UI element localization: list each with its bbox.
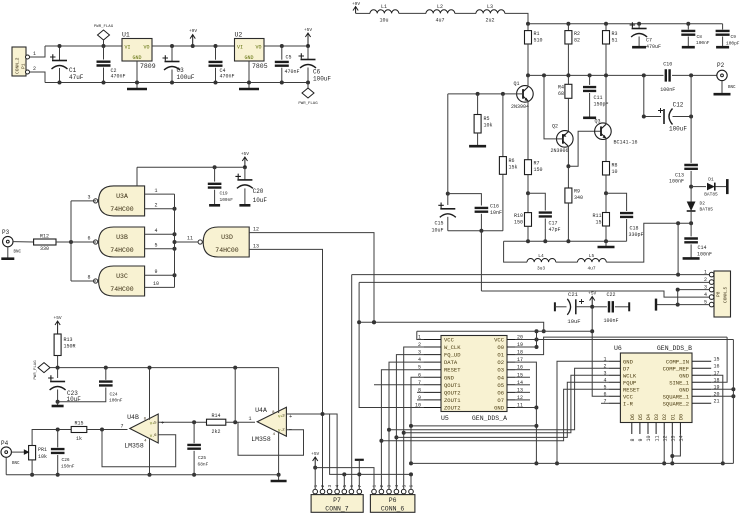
svg-text:D2: D2 [662,414,668,420]
svg-text:GND: GND [132,55,141,61]
+5V power symbol C21 [588,291,596,309]
wire U4B feedback [102,430,176,467]
connector P8 CONN_5 [704,270,731,317]
svg-text:D3: D3 [654,414,660,420]
wire C15 to Q1 base [447,94,449,194]
power flag top [94,25,114,48]
resistor R5 10k [469,94,492,146]
connector P3 BNC [1,229,21,259]
svg-text:10uF: 10uF [253,197,268,204]
svg-text:P2: P2 [717,62,725,69]
svg-text:L1: L1 [381,4,387,10]
svg-text:8: 8 [630,438,636,441]
wire U5 pin18 O1 [515,337,727,355]
capacitor C16 10nF [448,194,502,231]
svg-text:R2: R2 [574,31,580,37]
node R8-R11 [604,191,627,211]
svg-text:R5: R5 [484,116,490,122]
svg-text:100nF: 100nF [696,40,710,46]
wire U3C output [71,275,96,282]
wire P2 node down [690,75,692,162]
diode D2 BAT85 [687,187,714,224]
svg-text:U1: U1 [122,32,130,39]
wire bus to U3D [175,236,200,243]
wire P8 pin5 [657,303,710,307]
svg-text:W_CLK: W_CLK [444,344,461,351]
resistor R3 51 [603,22,618,76]
wire R12 to node [56,240,73,244]
diode D1 BAT85 [689,177,727,198]
svg-text:150R: 150R [64,344,76,350]
svg-text:VCC: VCC [623,393,634,400]
svg-text:VO: VO [255,45,261,51]
svg-text:I-R: I-R [623,400,634,407]
wire C15 C16 bottom row [448,229,503,233]
svg-text:470uF: 470uF [646,44,661,50]
wire R15 to U4B [87,424,128,432]
capacitor C8 100nF [681,22,710,47]
ground U2 [239,61,259,89]
svg-text:D4: D4 [646,414,652,420]
wire opamp ground rail [6,474,278,476]
svg-text:Q2: Q2 [552,124,558,130]
wire P4 to PR1 [11,451,22,453]
svg-text:5: 5 [154,243,157,249]
svg-text:BNC: BNC [12,462,20,466]
wire U5 pin1 VCC [417,331,424,339]
svg-text:R14: R14 [211,413,220,419]
svg-text:+5V: +5V [54,315,62,321]
svg-text:C15: C15 [434,221,443,227]
svg-text:100uF: 100uF [313,76,331,83]
svg-text:+5V: +5V [311,451,319,457]
resistor R2 82 [565,22,580,76]
svg-text:COMP_REF: COMP_REF [663,365,689,372]
svg-text:74HC00: 74HC00 [110,206,134,213]
svg-text:GEN_DDS_A: GEN_DDS_A [472,415,507,422]
svg-text:100nF: 100nF [697,252,712,258]
gate U3D 74HC00 [198,227,249,257]
wire U5 pin14 stub [515,384,530,386]
svg-text:R1: R1 [534,31,540,37]
wire U3D pin12 [249,227,374,323]
resistor R10 150 [514,193,532,241]
svg-text:74HC00: 74HC00 [215,247,239,254]
svg-text:CONN_6: CONN_6 [381,506,405,513]
svg-text:U5: U5 [441,415,449,422]
wire P1 pin2 [30,72,46,83]
wire row E sine [352,273,712,277]
resistor R11 15 [592,193,609,241]
svg-text:ZOUT1: ZOUT1 [444,397,461,404]
capacitor C18 330pF [620,213,644,241]
wire U3A output [71,195,96,201]
svg-text:1: 1 [248,416,251,422]
svg-text:3: 3 [387,485,393,488]
svg-text:QOUT2: QOUT2 [444,389,461,396]
regulator U2 7805 [235,32,268,71]
capacitor C21 10uF [555,291,592,325]
wire P3 to R12 [13,241,34,243]
capacitor C11 150pF [583,73,609,117]
svg-text:470nF: 470nF [111,74,126,80]
capacitor C25 68nF [187,422,208,477]
wire Q1 base [448,92,523,96]
transistor Q3 BC141-16 [594,119,637,146]
wire Q3 emitter [605,138,607,161]
wire row F square [359,281,711,283]
svg-text:SQUARE_1: SQUARE_1 [663,393,690,400]
capacitor C20 10uF [235,167,267,205]
wire output row [526,73,664,77]
svg-text:PWR_FLAG: PWR_FLAG [94,25,114,29]
wire vcc branch down [234,368,236,423]
wire data row4 [381,389,608,441]
wire P8 pin3 [676,288,710,292]
capacitor C2 470nF [97,46,126,85]
+5V power symbol [304,27,312,46]
svg-text:100uF: 100uF [177,74,195,81]
gate U3B 74HC00 [94,227,145,257]
svg-text:ZOUT2: ZOUT2 [444,404,461,411]
wire U4A feedback [238,422,304,455]
svg-text:GND: GND [679,386,690,393]
svg-text:O4: O4 [497,374,504,381]
svg-text:16: 16 [714,363,720,369]
svg-text:3: 3 [327,485,333,488]
capacitor C15 10uF [431,192,455,234]
+5V power symbol P7 [311,451,319,470]
capacitor C5 470nF [275,44,300,85]
svg-text:10: 10 [153,281,159,287]
svg-text:21: 21 [714,398,720,404]
svg-text:C14: C14 [698,245,707,251]
svg-text:P4: P4 [1,440,9,447]
capacitor C23 10uF [48,368,81,406]
IC U5 GEN_DDS_A [415,335,523,423]
svg-text:10: 10 [646,435,652,441]
svg-text:D1: D1 [670,414,676,420]
svg-text:GND: GND [494,404,505,411]
wire U6 pin6 VCC [590,307,608,397]
svg-text:68: 68 [558,91,564,97]
svg-text:RESET: RESET [623,386,640,393]
svg-text:+: + [161,420,164,427]
wire U5 pin12 stub [515,399,530,401]
wire U5 pin8 stub [417,391,423,393]
svg-text:C12: C12 [673,102,684,109]
svg-text:BNC: BNC [728,86,736,90]
svg-text:6: 6 [409,485,415,488]
svg-text:PR1: PR1 [38,447,47,453]
capacitor C14 100nF [683,223,712,258]
svg-text:C11: C11 [594,95,603,101]
svg-text:GND: GND [679,372,690,379]
capacitor C3 100uF [163,44,195,85]
wire U5 vcc riser [535,329,539,349]
capacitor C12 100uF [642,73,693,132]
wire U5 pin19 O0 [515,346,537,348]
svg-text:BAT85: BAT85 [700,207,714,213]
svg-text:+5V: +5V [241,151,249,157]
wire Q1 collector [527,75,529,87]
wire rail to L1 [356,12,370,14]
wire U5 pin3 FQ_UD [394,355,423,490]
svg-text:510: 510 [534,38,543,44]
capacitor C24 100nF [58,368,123,404]
svg-text:10: 10 [612,169,618,175]
svg-text:D1: D1 [708,177,714,183]
svg-text:L4: L4 [538,253,544,259]
wire U6 right loop down [732,340,734,464]
svg-text:U3B: U3B [116,234,128,241]
svg-text:4: 4 [154,228,157,234]
transistor Q2 2N3906 [551,124,574,155]
svg-text:D5: D5 [638,414,644,420]
node Q2-Q3 junction [566,131,600,168]
wire P6 pin6 stub [410,474,412,489]
wire emitter ground row [504,239,627,243]
wire row B 331 [417,330,592,332]
capacitor C17 47pF [539,213,561,242]
connector P2 BNC [689,62,736,94]
svg-text:100nF: 100nF [603,318,618,324]
svg-text:2u2: 2u2 [485,18,494,24]
svg-text:10k: 10k [38,454,47,460]
svg-text:1: 1 [154,188,157,194]
svg-text:1k: 1k [76,436,82,442]
wire U3A in2 [145,203,177,211]
svg-text:C22: C22 [606,292,615,298]
capacitor C7 470uF [630,22,661,50]
svg-text:4: 4 [394,485,400,488]
wire P8 gnd link [677,290,679,305]
svg-text:VI: VI [125,45,131,51]
svg-text:C26: C26 [62,457,70,463]
svg-text:LM358: LM358 [124,443,144,450]
wire U1 output [152,45,235,47]
svg-text:VCC: VCC [494,337,505,344]
svg-text:BAT85: BAT85 [704,192,718,198]
svg-text:1: 1 [372,485,378,488]
wire U5 pin13 stub [515,391,530,393]
wire Q3 collector [604,73,608,124]
connector P6 CONN_6 [370,485,415,513]
wire U5 pin9 stub [417,399,423,401]
svg-text:SINE_1: SINE_1 [669,379,690,386]
inductor L2 4u7 [426,4,455,24]
wire +5V row to P6 pin1 [315,468,374,490]
svg-text:CONN_5: CONN_5 [723,286,729,303]
svg-text:O2: O2 [497,359,504,366]
svg-text:1: 1 [33,51,36,57]
wire U5 pin11 GND [515,406,536,408]
power flag opamp [34,360,58,380]
svg-text:U4A: U4A [255,407,267,414]
svg-text:O1: O1 [497,352,504,359]
wire R14 to U4A [226,416,255,424]
svg-text:330pF: 330pF [629,232,644,238]
wire U3D pin13 [249,243,322,489]
svg-text:U3C: U3C [116,273,128,280]
svg-text:47pF: 47pF [549,227,561,233]
svg-text:150: 150 [534,167,543,173]
wire Q1 emitter [527,101,529,160]
svg-text:RESET: RESET [444,367,461,374]
svg-text:12: 12 [662,435,668,441]
svg-text:L3: L3 [487,4,493,10]
svg-text:GND: GND [623,358,634,365]
svg-text:11: 11 [654,435,660,441]
svg-text:P7: P7 [333,497,341,504]
svg-text:O3: O3 [497,367,504,374]
gate U3C 74HC00 [94,266,145,296]
wire U6 D0 down [672,434,680,456]
wire P7 pin1 [314,468,316,490]
wire data row1 [389,368,609,429]
power flag bottom [298,83,318,107]
svg-text:150: 150 [514,220,523,226]
svg-text:15: 15 [595,220,601,226]
svg-text:12: 12 [253,227,259,233]
wire gate output bus [173,194,177,287]
resistor R6 15k [499,94,517,231]
ground amp row [598,241,615,247]
svg-text:C24: C24 [110,392,118,398]
capacitor C22 100nF [592,292,629,324]
svg-text:SQUARE_2: SQUARE_2 [663,400,689,407]
capacitor C6 100uF [299,44,332,85]
svg-text:GEN_DDS_B: GEN_DDS_B [657,345,692,352]
node sine out [676,221,693,225]
svg-text:4u7: 4u7 [587,266,595,272]
wire data row3 [396,382,608,437]
svg-text:5: 5 [342,485,348,488]
wire U5 pin15 stub [515,376,530,378]
wire U3B in1 [145,228,177,236]
svg-text:FQUP: FQUP [623,379,636,386]
svg-text:470nF: 470nF [285,69,300,75]
svg-text:U6: U6 [614,345,622,352]
svg-text:U2: U2 [235,32,243,39]
capacitor C1 47uF [50,44,84,85]
svg-text:L2: L2 [437,4,443,10]
svg-text:340: 340 [574,195,583,201]
wire gates vcc rail [137,165,247,169]
svg-text:U3D: U3D [221,234,233,241]
capacitor C13 100nF [669,165,698,187]
svg-text:GND: GND [244,55,253,61]
svg-text:C1: C1 [69,67,77,74]
svg-text:+9V: +9V [189,28,197,34]
svg-text:15k: 15k [509,165,518,171]
svg-text:P3: P3 [2,229,10,236]
svg-text:C8: C8 [697,34,703,40]
svg-text:2: 2 [704,277,707,283]
svg-text:U3A: U3A [116,193,128,200]
wire U6 D1 down [670,434,674,465]
svg-text:GND: GND [444,374,455,381]
svg-text:C25: C25 [198,455,206,461]
svg-text:DATA: DATA [444,359,458,366]
svg-text:D6: D6 [630,414,636,420]
wire U6 D2 down [662,434,666,465]
svg-text:D2: D2 [700,201,706,207]
svg-text:VO: VO [143,45,149,51]
svg-text:10nF: 10nF [490,210,502,216]
svg-text:O7: O7 [497,397,504,404]
resistor R9 340 [565,166,583,241]
svg-text:FQ_UD: FQ_UD [444,352,461,359]
wire +9V rail right [528,23,723,25]
svg-text:P8: P8 [716,291,722,297]
wire ground row B [330,414,413,476]
svg-text:82: 82 [574,38,580,44]
svg-text:O0: O0 [497,344,504,351]
svg-text:R10: R10 [514,213,523,219]
wire U4B plus input [158,420,206,424]
svg-text:9: 9 [154,269,157,275]
wire sine to P8 [677,223,679,274]
svg-text:Q1: Q1 [514,81,520,87]
svg-text:+9V: +9V [352,1,360,7]
+9V power symbol right [352,1,360,13]
svg-text:10uF: 10uF [567,318,580,325]
svg-text:9: 9 [638,438,644,441]
svg-text:74HC00: 74HC00 [110,247,134,254]
capacitor C26 150nF [51,430,75,477]
svg-text:4: 4 [704,292,707,298]
svg-text:R3: R3 [612,31,618,37]
svg-text:Q3: Q3 [594,119,600,125]
svg-text:1: 1 [704,270,707,276]
wire U5 pin16 stub [515,369,530,371]
wire U3A vcc pin [136,167,138,186]
inductor L4 3u3 [504,241,578,271]
svg-text:R11: R11 [592,213,601,219]
transistor Q1 2N3904 [511,81,533,110]
wire L2-L3 [455,12,476,14]
svg-text:PWR_FLAG: PWR_FLAG [34,360,38,380]
svg-text:13: 13 [671,435,677,441]
resistor R13 150R [54,334,75,368]
svg-text:100nF: 100nF [669,179,684,185]
svg-text:11: 11 [187,236,193,242]
svg-text:7: 7 [357,485,363,488]
svg-text:7: 7 [120,424,123,430]
wire output row2 [672,74,717,76]
inductor L3 2u2 [476,4,505,24]
svg-text:WCLK: WCLK [623,372,637,379]
resistor R4 68 [558,73,572,132]
svg-text:150nF: 150nF [61,464,75,470]
+5V power symbol opamp [54,315,62,334]
svg-text:+5V: +5V [304,27,312,33]
wire U5 pin7 QOUT1 [372,320,423,385]
svg-text:QOUT1: QOUT1 [444,382,461,389]
wire U3A in1 [145,188,175,194]
wire U4A vplus pin [278,368,280,413]
capacitor C10 100nF [660,62,675,94]
svg-text:4u7: 4u7 [435,18,444,24]
wire U5 pin20 VCC row [515,338,733,342]
wire row A 322 [359,320,546,333]
wire C16 node down [480,231,482,291]
svg-text:C5: C5 [286,55,292,61]
inductor L5 4u7 [578,223,692,271]
wire U6 pin20 SQUARE1 [711,394,735,398]
svg-text:P6: P6 [389,497,397,504]
